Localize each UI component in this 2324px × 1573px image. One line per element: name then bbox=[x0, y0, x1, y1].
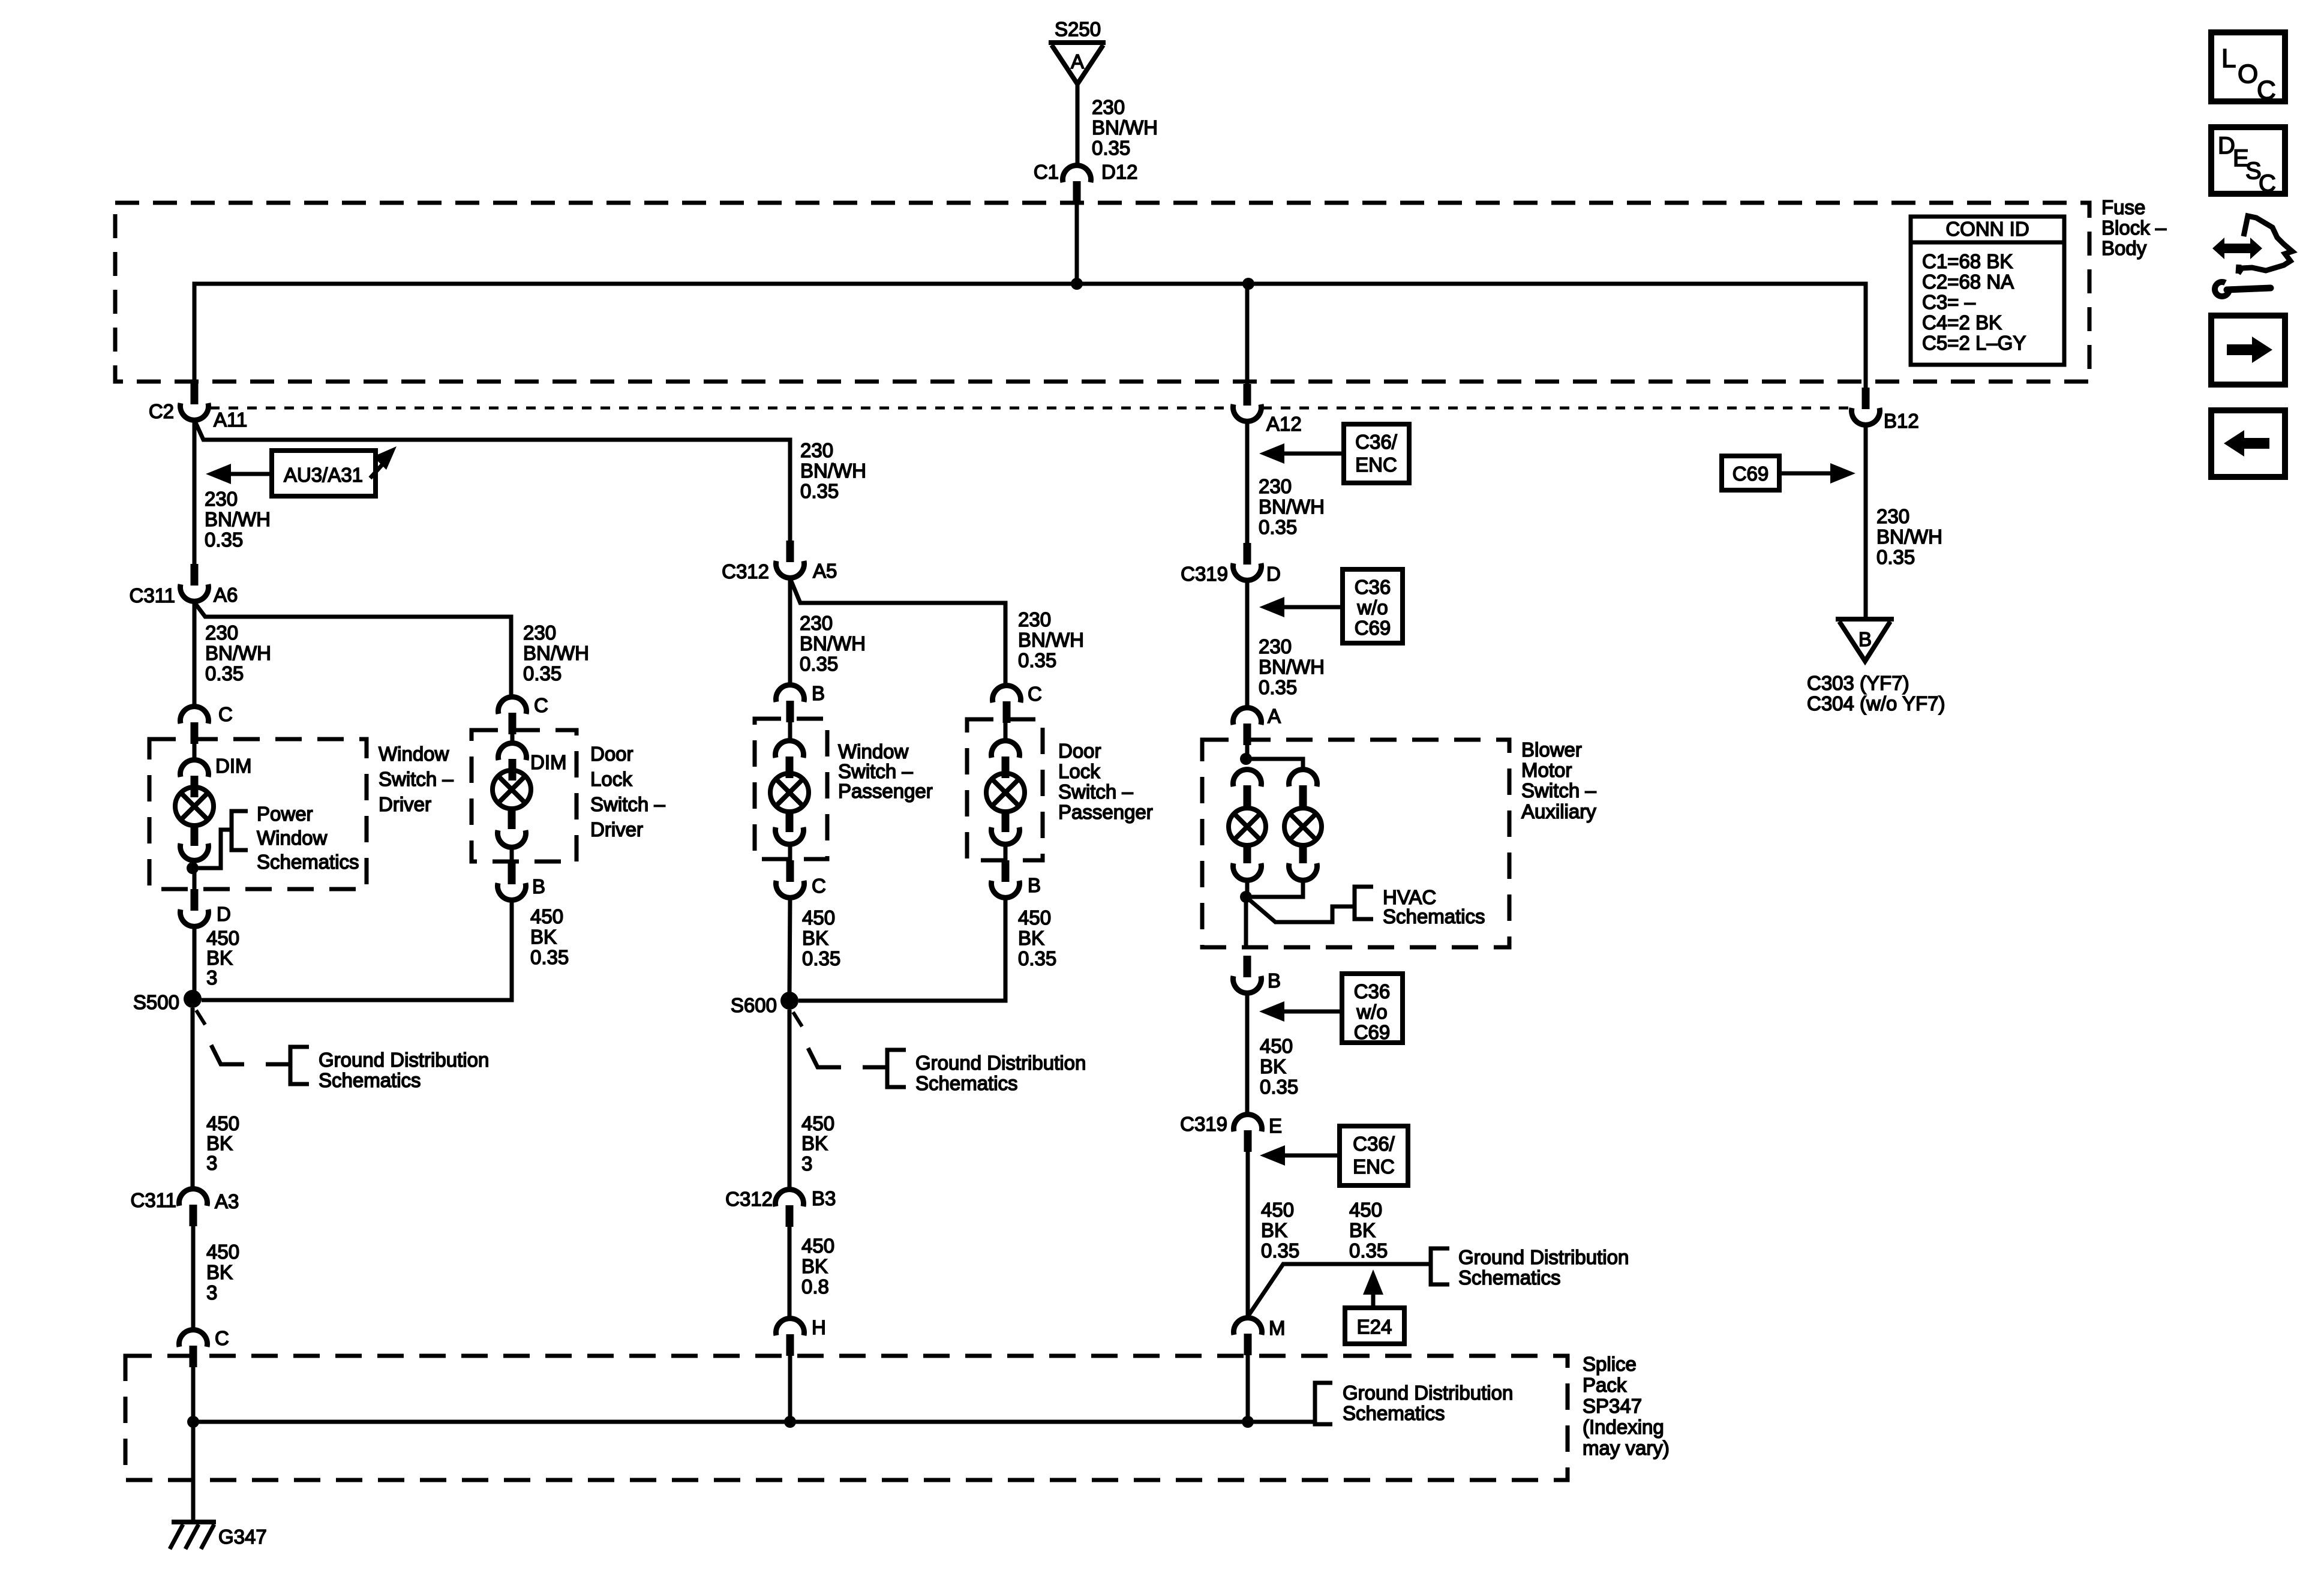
svg-text:E24: E24 bbox=[1357, 1316, 1392, 1338]
connector D (window switch driver) bbox=[191, 889, 199, 911]
connector B (door lock passenger) bbox=[1002, 860, 1010, 882]
svg-text:C36: C36 bbox=[1355, 576, 1391, 598]
svg-text:H: H bbox=[812, 1316, 826, 1338]
reference box C36/ENC lower bbox=[1340, 1126, 1408, 1185]
arrow C36/ENC upper to wire bbox=[1259, 443, 1284, 464]
pin below left lamp (blower) bbox=[1244, 845, 1251, 863]
svg-text:BN/WH: BN/WH bbox=[1259, 496, 1325, 518]
junction dot power window tap bbox=[187, 862, 199, 874]
svg-text:Lock: Lock bbox=[590, 768, 632, 790]
connector inner top (door lock passenger) bbox=[992, 741, 1020, 758]
junction dot splice bus right bbox=[1242, 1416, 1254, 1428]
svg-text:w/o: w/o bbox=[1356, 1001, 1387, 1023]
svg-text:BN/WH: BN/WH bbox=[1259, 656, 1325, 678]
junction dot splice bus middle bbox=[784, 1416, 796, 1428]
svg-text:Ground Distribution: Ground Distribution bbox=[1343, 1382, 1513, 1404]
svg-text:450: 450 bbox=[801, 1235, 834, 1257]
power window schematics bracket bbox=[232, 811, 248, 850]
pin below lamp (door lock passenger) bbox=[1002, 812, 1010, 832]
junction dot at C1 riser bbox=[1071, 278, 1083, 290]
svg-text:C1: C1 bbox=[1034, 161, 1059, 183]
connector below left lamp (blower) bbox=[1233, 863, 1262, 880]
connector B (door lock driver) bbox=[508, 863, 516, 884]
svg-text:Fuse: Fuse bbox=[2101, 196, 2145, 218]
svg-text:C69: C69 bbox=[1733, 463, 1769, 485]
svg-text:A: A bbox=[1071, 50, 1084, 73]
connector below lamp (door lock driver) bbox=[498, 830, 526, 847]
svg-text:230: 230 bbox=[800, 612, 833, 634]
svg-text:450: 450 bbox=[801, 1112, 834, 1134]
wire C312 down to window switch passenger bbox=[788, 578, 792, 684]
pin below lamp (window switch driver) bbox=[191, 825, 199, 846]
svg-text:Driver: Driver bbox=[379, 793, 431, 815]
wire branch A5 to door lock switch passenger bbox=[790, 578, 1005, 685]
svg-text:450: 450 bbox=[206, 1112, 239, 1134]
svg-text:230: 230 bbox=[205, 488, 238, 510]
lamp door lock driver bbox=[493, 770, 531, 809]
svg-text:230: 230 bbox=[1018, 608, 1051, 631]
svg-text:D: D bbox=[1266, 563, 1281, 585]
connector C311 pin A6 bbox=[191, 564, 199, 586]
lamp window switch passenger bbox=[770, 773, 809, 812]
wire into blower box bbox=[1245, 745, 1250, 759]
svg-text:Door: Door bbox=[1058, 740, 1101, 762]
ground distribution bracket (splice) bbox=[1315, 1383, 1332, 1424]
svg-text:C4=2 BK: C4=2 BK bbox=[1922, 311, 2002, 334]
wire lamp to C (window switch passenger) bbox=[788, 846, 792, 863]
connector C (door lock passenger) bbox=[992, 686, 1020, 703]
svg-text:Switch –: Switch – bbox=[1058, 781, 1133, 803]
S600 ground distribution bracket bbox=[887, 1050, 906, 1087]
icon wrench and harness bbox=[2222, 244, 2253, 253]
svg-text:B: B bbox=[812, 682, 825, 704]
svg-text:Schematics: Schematics bbox=[1458, 1266, 1561, 1289]
svg-text:3: 3 bbox=[206, 1281, 217, 1304]
svg-text:CONN ID: CONN ID bbox=[1945, 218, 2029, 240]
svg-text:AU3/A31: AU3/A31 bbox=[284, 464, 363, 486]
svg-text:ENC: ENC bbox=[1353, 1155, 1395, 1178]
connector C2 pin A11 bbox=[191, 383, 199, 404]
svg-text:C1=68 BK: C1=68 BK bbox=[1922, 250, 2013, 272]
door lock switch driver dashed box bbox=[472, 730, 577, 861]
svg-text:B: B bbox=[1858, 628, 1872, 650]
wire lamp to B (door lock driver) bbox=[510, 848, 514, 864]
svg-text:C319: C319 bbox=[1180, 1113, 1227, 1135]
arrow C69 to wire bbox=[1830, 463, 1855, 484]
svg-text:Switch –: Switch – bbox=[838, 760, 913, 782]
svg-text:230: 230 bbox=[1876, 505, 1909, 527]
harness dotted line left span bbox=[210, 407, 1232, 410]
svg-text:BK: BK bbox=[1018, 927, 1044, 949]
pin below lamp (door lock driver) bbox=[508, 809, 516, 829]
svg-text:A3: A3 bbox=[215, 1190, 239, 1212]
connector C319 pin D bbox=[1244, 543, 1251, 565]
svg-text:BK: BK bbox=[206, 947, 233, 969]
connector below lamp (window switch driver) bbox=[180, 843, 208, 860]
wire blower junction to B bbox=[1244, 897, 1248, 947]
svg-text:C69: C69 bbox=[1354, 1021, 1391, 1043]
svg-text:SP347: SP347 bbox=[1583, 1395, 1642, 1417]
wire E to M bbox=[1246, 1151, 1250, 1317]
CONN ID table box bbox=[1911, 217, 2064, 365]
splice symbol B triangle bbox=[1836, 617, 1894, 622]
wire C311 down to window switch driver bbox=[193, 602, 197, 706]
reference box C69 bbox=[1722, 456, 1779, 490]
svg-text:DIM: DIM bbox=[215, 755, 252, 777]
svg-text:C36/: C36/ bbox=[1353, 1133, 1395, 1155]
svg-text:450: 450 bbox=[530, 905, 563, 927]
svg-text:C311: C311 bbox=[130, 584, 175, 607]
svg-text:C: C bbox=[1028, 683, 1042, 705]
svg-text:Window: Window bbox=[838, 740, 909, 763]
svg-text:C312: C312 bbox=[722, 560, 769, 583]
svg-text:BK: BK bbox=[1261, 1219, 1287, 1241]
door lock switch passenger dashed box bbox=[967, 719, 1043, 860]
svg-text:M: M bbox=[1269, 1317, 1286, 1339]
svg-text:0.35: 0.35 bbox=[205, 529, 243, 551]
wire blower B to C319 E bbox=[1245, 993, 1250, 1113]
svg-text:BN/WH: BN/WH bbox=[1092, 116, 1158, 139]
splice pack bus wire bbox=[193, 1420, 1314, 1424]
reference box C36 w/o C69 upper bbox=[1343, 569, 1403, 643]
connector DIM (window switch driver) bbox=[180, 760, 208, 777]
svg-text:230: 230 bbox=[205, 622, 238, 644]
svg-text:C312: C312 bbox=[725, 1188, 773, 1210]
wire B to S500 branch bbox=[202, 900, 512, 1000]
svg-text:S600: S600 bbox=[731, 994, 777, 1016]
svg-text:3: 3 bbox=[801, 1152, 812, 1175]
connector C (door lock driver) bbox=[499, 697, 527, 714]
HVAC schematics bracket bbox=[1355, 887, 1373, 919]
svg-text:Schematics: Schematics bbox=[257, 851, 359, 873]
svg-text:BK: BK bbox=[801, 1132, 828, 1154]
svg-text:Ground Distribution: Ground Distribution bbox=[1458, 1246, 1629, 1268]
svg-text:BN/WH: BN/WH bbox=[205, 642, 271, 664]
arrow C36 w/o C69 upper to wire bbox=[1259, 597, 1284, 617]
svg-text:450: 450 bbox=[206, 927, 239, 949]
S600 tick bbox=[793, 1012, 802, 1026]
wire S250 to C1 bbox=[1076, 84, 1080, 164]
svg-text:230: 230 bbox=[523, 622, 556, 644]
arrow C36 w/o C69 blower to wire bbox=[1259, 1001, 1284, 1022]
wire branch A11 to window switch passenger column bbox=[194, 420, 790, 549]
svg-text:BN/WH: BN/WH bbox=[523, 642, 589, 664]
svg-text:450: 450 bbox=[802, 906, 835, 929]
blower motor switch dashed box bbox=[1202, 740, 1509, 947]
svg-text:A: A bbox=[1268, 705, 1281, 727]
svg-text:0.8: 0.8 bbox=[801, 1275, 829, 1298]
svg-text:C: C bbox=[534, 694, 548, 716]
svg-text:D: D bbox=[217, 903, 231, 925]
ground distribution bracket (E-M) bbox=[1431, 1248, 1449, 1284]
svg-text:ENC: ENC bbox=[1355, 454, 1397, 476]
splice symbol S250 triangle A bbox=[1049, 40, 1106, 45]
svg-text:C: C bbox=[2259, 170, 2276, 197]
lamp blower left bbox=[1229, 808, 1266, 845]
wire B to S600 branch bbox=[798, 898, 1005, 1001]
svg-text:450: 450 bbox=[1260, 1035, 1293, 1057]
svg-text:C303 (YF7): C303 (YF7) bbox=[1807, 672, 1909, 694]
svg-text:C2=68 NA: C2=68 NA bbox=[1922, 271, 2014, 293]
reference box E24 bbox=[1345, 1308, 1404, 1344]
wire into window switch passenger bbox=[788, 719, 792, 740]
svg-text:C3= –: C3= – bbox=[1922, 291, 1976, 313]
arrow C36/ENC lower to wire bbox=[1260, 1145, 1285, 1166]
svg-text:230: 230 bbox=[1259, 635, 1292, 658]
svg-text:BK: BK bbox=[1349, 1219, 1376, 1241]
S500 ground distribution tap bbox=[211, 1045, 244, 1064]
svg-text:S500: S500 bbox=[133, 991, 179, 1013]
connector C (splice pack) bbox=[179, 1330, 207, 1347]
connector H (splice pack) bbox=[776, 1319, 804, 1335]
wire D to S500 bbox=[193, 927, 197, 991]
reference box AU3/A31 bbox=[272, 451, 376, 496]
svg-text:Switch –: Switch – bbox=[590, 793, 665, 815]
wire C to S600 bbox=[789, 898, 790, 993]
svg-text:A12: A12 bbox=[1266, 413, 1302, 435]
svg-text:0.35: 0.35 bbox=[800, 480, 839, 502]
svg-text:Window: Window bbox=[379, 743, 449, 765]
connector M (splice pack) bbox=[1234, 1318, 1262, 1335]
svg-text:Splice: Splice bbox=[1583, 1353, 1637, 1375]
reference box C36/ENC upper bbox=[1344, 424, 1409, 483]
svg-text:B: B bbox=[1268, 969, 1281, 992]
svg-text:Ground Distribution: Ground Distribution bbox=[319, 1049, 489, 1071]
svg-text:450: 450 bbox=[206, 1241, 239, 1263]
svg-text:BK: BK bbox=[802, 927, 828, 949]
wire right lamp to junction (blower) bbox=[1246, 882, 1303, 897]
pin below right lamp (blower) bbox=[1299, 845, 1307, 863]
svg-text:Switch –: Switch – bbox=[1521, 779, 1596, 801]
connector B (window switch passenger) bbox=[776, 685, 804, 702]
svg-text:BK: BK bbox=[801, 1255, 828, 1277]
splice S600 dot bbox=[780, 992, 798, 1010]
junction dot at A12 drop bbox=[1242, 278, 1254, 290]
wire B12 down to triangle B bbox=[1864, 425, 1868, 619]
ground G347 symbol bbox=[172, 1520, 216, 1524]
svg-text:0.35: 0.35 bbox=[1260, 1076, 1298, 1098]
svg-text:C: C bbox=[218, 703, 233, 725]
wire A12 drop bbox=[1245, 284, 1250, 386]
svg-text:Ground Distribution: Ground Distribution bbox=[915, 1052, 1086, 1074]
connector right lamp top (blower) bbox=[1289, 770, 1317, 786]
splice S500 dot bbox=[184, 990, 202, 1008]
wire left lamp to junction (blower) bbox=[1245, 882, 1250, 897]
svg-text:G347: G347 bbox=[218, 1526, 267, 1548]
svg-text:C: C bbox=[2257, 76, 2276, 105]
S600 ground distribution tap bbox=[808, 1048, 841, 1067]
svg-text:Window: Window bbox=[257, 827, 328, 849]
wire M down to splice bus bbox=[1246, 1355, 1250, 1422]
HVAC schematics tap line bbox=[1246, 897, 1353, 922]
wire bus inside fuse block bbox=[194, 284, 1866, 390]
svg-text:Passenger: Passenger bbox=[1058, 801, 1153, 823]
icon box LOC bbox=[2211, 32, 2285, 101]
connector C312 pin A5 bbox=[786, 541, 794, 562]
svg-text:Motor: Motor bbox=[1521, 759, 1572, 781]
svg-text:E: E bbox=[1269, 1115, 1282, 1137]
svg-text:C5=2 L–GY: C5=2 L–GY bbox=[1922, 332, 2026, 354]
svg-text:BK: BK bbox=[1260, 1055, 1286, 1077]
wire into window switch driver bbox=[193, 743, 197, 760]
arrow AU3/A31 diagonal bbox=[370, 461, 386, 478]
svg-text:D12: D12 bbox=[1101, 161, 1138, 183]
svg-text:Body: Body bbox=[2101, 237, 2147, 259]
connector below lamp (window switch passenger) bbox=[776, 827, 804, 844]
window switch passenger dashed box bbox=[755, 719, 827, 859]
wire A12 to C319 D bbox=[1245, 422, 1250, 543]
svg-text:Blower: Blower bbox=[1521, 739, 1582, 761]
svg-text:0.35: 0.35 bbox=[530, 946, 569, 968]
svg-text:0.35: 0.35 bbox=[205, 662, 244, 685]
svg-text:BN/WH: BN/WH bbox=[1018, 629, 1084, 651]
svg-text:B: B bbox=[532, 875, 545, 897]
svg-text:B3: B3 bbox=[812, 1187, 836, 1209]
connector C1 pin D12 bbox=[1063, 166, 1091, 182]
svg-text:Passenger: Passenger bbox=[838, 780, 933, 802]
svg-text:A11: A11 bbox=[214, 409, 247, 431]
svg-text:Pack: Pack bbox=[1583, 1374, 1627, 1396]
connector inner top (window switch passenger) bbox=[776, 741, 804, 758]
svg-text:Switch –: Switch – bbox=[379, 768, 454, 790]
lamp blower right bbox=[1284, 808, 1322, 845]
connector below right lamp (blower) bbox=[1289, 863, 1317, 880]
svg-text:B12: B12 bbox=[1884, 410, 1919, 432]
svg-text:0.35: 0.35 bbox=[1259, 676, 1297, 698]
connector DIM (door lock driver) bbox=[499, 743, 527, 760]
svg-text:Schematics: Schematics bbox=[915, 1072, 1018, 1094]
lamp door lock passenger bbox=[986, 773, 1025, 812]
svg-text:0.35: 0.35 bbox=[1349, 1239, 1388, 1262]
pin below lamp (window switch passenger) bbox=[786, 812, 794, 832]
svg-text:C304 (w/o YF7): C304 (w/o YF7) bbox=[1807, 692, 1945, 715]
connector B (blower) bbox=[1244, 956, 1251, 977]
svg-text:C69: C69 bbox=[1355, 617, 1391, 639]
svg-text:C: C bbox=[215, 1327, 229, 1349]
svg-text:450: 450 bbox=[1018, 906, 1051, 929]
S500 ground distribution bracket bbox=[290, 1047, 309, 1084]
svg-text:0.35: 0.35 bbox=[800, 653, 838, 675]
arrow AU3/A31 to wire bbox=[206, 464, 231, 484]
ground distribution tap line (E-M) bbox=[1248, 1264, 1429, 1316]
svg-text:C311: C311 bbox=[131, 1189, 176, 1211]
wire S500 down to C311 A3 bbox=[191, 1008, 195, 1188]
svg-text:BN/WH: BN/WH bbox=[205, 508, 271, 530]
svg-text:(Indexing: (Indexing bbox=[1583, 1416, 1664, 1438]
svg-text:0.35: 0.35 bbox=[802, 947, 840, 969]
power window schematics tap line bbox=[193, 830, 230, 868]
connector C (window switch driver) bbox=[180, 707, 208, 724]
svg-text:O: O bbox=[2238, 59, 2258, 89]
svg-text:230: 230 bbox=[1092, 96, 1125, 118]
junction dot splice bus left bbox=[187, 1416, 199, 1428]
svg-text:BN/WH: BN/WH bbox=[800, 460, 866, 482]
svg-text:Lock: Lock bbox=[1058, 760, 1100, 782]
svg-text:BK: BK bbox=[530, 926, 557, 948]
wire into door lock driver bbox=[511, 734, 515, 744]
arrow E24 up bbox=[1363, 1269, 1383, 1295]
CONN ID table header line bbox=[1911, 241, 2064, 245]
svg-text:L: L bbox=[2221, 44, 2236, 73]
wire S600 down to C312 B3 bbox=[788, 1010, 792, 1189]
svg-text:C36: C36 bbox=[1354, 980, 1391, 1002]
svg-text:Block –: Block – bbox=[2101, 217, 2167, 239]
wire C down to ground bbox=[191, 1366, 196, 1522]
svg-text:0.35: 0.35 bbox=[1018, 947, 1056, 969]
svg-text:Schematics: Schematics bbox=[1343, 1402, 1445, 1424]
svg-text:DIM: DIM bbox=[530, 751, 567, 773]
wire lamp to D (window switch driver) bbox=[193, 861, 197, 891]
wire blower branch top bbox=[1246, 759, 1303, 769]
icon box DESC bbox=[2211, 127, 2285, 194]
svg-text:230: 230 bbox=[1259, 475, 1292, 497]
junction dot blower bottom bbox=[1240, 891, 1252, 903]
svg-text:Power: Power bbox=[257, 803, 313, 825]
connector left lamp top (blower) bbox=[1233, 770, 1262, 786]
wire A3 to C bbox=[191, 1225, 196, 1328]
svg-text:Schematics: Schematics bbox=[319, 1069, 421, 1091]
reference box C36 w/o C69 blower bbox=[1342, 974, 1403, 1043]
svg-text:0.35: 0.35 bbox=[1259, 516, 1297, 538]
svg-text:C319: C319 bbox=[1181, 563, 1228, 585]
lamp window switch driver bbox=[175, 787, 214, 825]
svg-text:Door: Door bbox=[590, 743, 633, 765]
wire B3 to H bbox=[788, 1226, 792, 1318]
svg-text:may vary): may vary) bbox=[1583, 1437, 1670, 1459]
svg-text:Auxiliary: Auxiliary bbox=[1521, 800, 1596, 822]
svg-text:C: C bbox=[812, 875, 826, 897]
icon box arrow left bbox=[2211, 410, 2285, 477]
connector A12 (fuse block) bbox=[1244, 384, 1251, 406]
svg-text:B: B bbox=[1028, 874, 1041, 896]
svg-text:450: 450 bbox=[1349, 1199, 1382, 1221]
connector C312 pin B3 bbox=[776, 1190, 804, 1206]
svg-text:A5: A5 bbox=[813, 560, 837, 582]
svg-text:w/o: w/o bbox=[1356, 596, 1388, 619]
svg-text:230: 230 bbox=[800, 439, 833, 461]
harness dotted line right span bbox=[1262, 407, 1851, 410]
svg-text:BN/WH: BN/WH bbox=[800, 632, 866, 655]
junction dot blower top bbox=[1240, 753, 1252, 765]
svg-text:3: 3 bbox=[206, 966, 217, 989]
svg-text:0.35: 0.35 bbox=[1876, 546, 1915, 568]
window switch driver dashed box bbox=[149, 739, 367, 889]
svg-text:3: 3 bbox=[206, 1152, 217, 1174]
fuse block - body dashed outline bbox=[115, 203, 2089, 382]
icon box arrow right bbox=[2211, 316, 2285, 385]
wire into door lock passenger bbox=[1004, 719, 1008, 740]
connector C311 pin A3 bbox=[179, 1189, 207, 1206]
svg-text:A6: A6 bbox=[214, 584, 238, 606]
splice pack SP347 dashed box bbox=[125, 1356, 1568, 1480]
wire H down to splice bus bbox=[788, 1356, 792, 1422]
connector C (window switch passenger) bbox=[786, 860, 794, 882]
wire C319 D to blower box bbox=[1245, 581, 1250, 708]
wire C2 down to C311 bbox=[193, 420, 197, 564]
wire lamp to B (door lock passenger) bbox=[1004, 846, 1008, 863]
S500 tick bbox=[196, 1010, 205, 1025]
wire branch A6 to door lock switch driver bbox=[194, 602, 511, 696]
svg-text:0.35: 0.35 bbox=[1092, 137, 1130, 159]
svg-text:Driver: Driver bbox=[590, 818, 643, 840]
connector C319 pin E bbox=[1234, 1115, 1262, 1131]
svg-text:Schematics: Schematics bbox=[1383, 905, 1485, 927]
connector below lamp (door lock passenger) bbox=[992, 827, 1020, 844]
wire C1 riser to bus bbox=[1075, 203, 1079, 284]
svg-text:C2: C2 bbox=[149, 400, 174, 422]
connector B12 (fuse block) bbox=[1862, 388, 1870, 409]
svg-text:450: 450 bbox=[1261, 1199, 1294, 1221]
